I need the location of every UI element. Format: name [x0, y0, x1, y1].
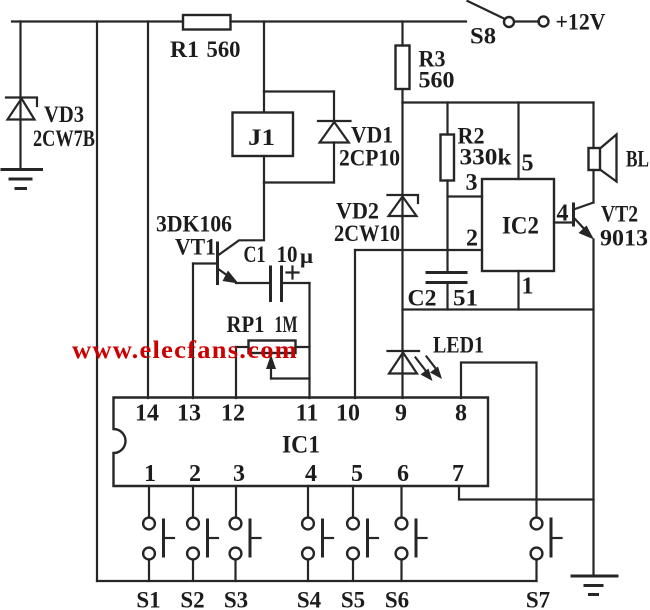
pin label 11 [296, 401, 319, 427]
pin label 4 [557, 201, 569, 227]
svg-text:10: 10 [336, 401, 360, 427]
capacitor C1 [236, 267, 310, 301]
wire J1/VD1 bottom bar [264, 181, 334, 183]
label S4 [297, 588, 322, 610]
svg-text:560: 560 [419, 68, 455, 93]
svg-text:560: 560 [207, 37, 241, 62]
wire pin4 [554, 221, 572, 223]
resistor R1 [183, 15, 231, 30]
svg-text:LED1: LED1 [433, 333, 484, 358]
svg-text:6: 6 [397, 461, 409, 487]
wire pin10 vertical [354, 250, 356, 398]
pin label 5 [522, 151, 534, 177]
label VT2 9013 [600, 202, 648, 251]
svg-text:www.elecfans.com: www.elecfans.com [72, 337, 298, 364]
svg-text:μ: μ [300, 244, 313, 268]
LED LED1 [388, 351, 443, 381]
svg-text:1M: 1M [275, 312, 298, 337]
label J1 [248, 125, 275, 150]
wire bottom rail [97, 580, 537, 582]
pin label 8 [455, 401, 467, 427]
svg-text:S4: S4 [297, 588, 322, 610]
pin label 5b [351, 461, 363, 487]
svg-text:IC2: IC2 [502, 213, 539, 240]
svg-text:12: 12 [221, 401, 245, 427]
svg-text:BL: BL [626, 147, 649, 172]
wire pin14 vertical [147, 22, 149, 399]
pin label 3b [233, 461, 245, 487]
watermark text [72, 337, 298, 364]
label R3 560 [419, 47, 455, 93]
wire left drop to VD3 [19, 22, 21, 170]
switch S1 [143, 486, 174, 581]
pin label 4b [305, 461, 317, 487]
potentiometer RP1 [236, 341, 310, 379]
switch S6 [396, 486, 427, 581]
label VD2 2CW10 [334, 199, 400, 247]
resistor R3 [396, 22, 410, 103]
wire top rail right [231, 20, 467, 22]
label 3DK106 VT1 [156, 212, 232, 260]
resistor R2 [441, 103, 455, 273]
svg-text:S5: S5 [341, 588, 365, 610]
svg-text:9: 9 [395, 401, 407, 427]
svg-text:13: 13 [177, 401, 201, 427]
svg-text:10: 10 [277, 242, 298, 267]
wire pin5 [517, 103, 519, 180]
label S6 [385, 588, 409, 610]
svg-text:330k: 330k [460, 145, 512, 170]
switch S3 [230, 486, 261, 581]
transistor VT2 [574, 203, 595, 577]
svg-text:S3: S3 [224, 588, 248, 610]
pin label 2 [466, 226, 478, 252]
IC IC1 [114, 398, 489, 487]
svg-text:S8: S8 [470, 24, 496, 49]
svg-text:C2: C2 [408, 286, 437, 311]
svg-text:51: 51 [453, 286, 478, 311]
svg-text:7: 7 [452, 461, 464, 487]
ground (left) [2, 170, 42, 189]
svg-text:C1: C1 [244, 242, 266, 267]
label C2 51 [408, 286, 479, 311]
label S3 [224, 588, 248, 610]
svg-text:VD1: VD1 [351, 123, 393, 148]
wire top rail left [12, 20, 183, 22]
pin label 14 [135, 401, 159, 427]
label IC1 [282, 432, 320, 459]
svg-text:3: 3 [466, 170, 478, 196]
wire pin11 vertical [308, 283, 310, 398]
switch S5 [347, 486, 378, 581]
label C1 10 u [244, 242, 314, 268]
wire pin1 [517, 271, 519, 310]
diode VD1 [318, 92, 351, 183]
pin label 6b [397, 461, 409, 487]
wire drop to J1 section [263, 22, 265, 92]
label VD1 2CP10 [339, 123, 400, 171]
wire pin7 route [459, 486, 594, 500]
pin label 12 [221, 401, 245, 427]
svg-text:VD2: VD2 [336, 199, 379, 224]
label R1 560 [170, 37, 241, 62]
svg-text:2: 2 [466, 226, 478, 252]
wire pin8 route [461, 363, 537, 517]
svg-text:9013: 9013 [600, 226, 648, 251]
svg-text:IC1: IC1 [282, 432, 320, 459]
wire pin12 vertical [235, 347, 237, 398]
pin label 1 [522, 274, 534, 300]
svg-text:2CW7B: 2CW7B [33, 126, 95, 151]
svg-text:2CP10: 2CP10 [339, 146, 400, 171]
wire VD2/LED column [401, 103, 403, 399]
svg-text:VT2: VT2 [601, 202, 638, 227]
diode VD3 (zener) [6, 98, 37, 120]
label R2 330k [458, 124, 512, 170]
svg-text:R1: R1 [170, 37, 199, 62]
diode VD2 (zener) [388, 195, 419, 216]
pin label 1b [144, 461, 156, 487]
svg-text:2CW10: 2CW10 [334, 221, 400, 246]
svg-text:RP1: RP1 [227, 312, 265, 337]
pin label 2b [189, 461, 201, 487]
svg-text:VD3: VD3 [44, 102, 84, 127]
relay J1 [233, 92, 294, 183]
switch S7 [531, 518, 562, 581]
svg-text:4: 4 [557, 201, 569, 227]
label S7 [526, 588, 550, 610]
svg-text:1: 1 [144, 461, 156, 487]
label S8 [470, 24, 496, 49]
pin label 7b [452, 461, 464, 487]
pin label 3 [466, 170, 478, 196]
svg-text:S1: S1 [136, 588, 160, 610]
svg-text:3DK106: 3DK106 [156, 212, 232, 237]
label IC2 [502, 213, 539, 240]
label +12V [556, 10, 606, 35]
svg-text:3: 3 [233, 461, 245, 487]
svg-text:S6: S6 [385, 588, 409, 610]
switch S8 [468, 1, 549, 27]
svg-text:VT1: VT1 [175, 235, 216, 260]
transistor VT1 [193, 183, 264, 284]
svg-text:5: 5 [522, 151, 534, 177]
label BL [626, 147, 649, 172]
svg-text:S7: S7 [526, 588, 550, 610]
label S1 [136, 588, 160, 610]
wire long left vertical [96, 22, 98, 582]
wire J1/VD1 top bar [264, 90, 334, 92]
wire pin2 [355, 249, 482, 251]
switch S2 [187, 486, 218, 581]
label S2 [180, 588, 204, 610]
svg-text:5: 5 [351, 461, 363, 487]
label VD3 2CW7B [33, 102, 95, 151]
wire pin13 vertical [192, 264, 194, 399]
wire supply node horizontal [403, 101, 594, 103]
svg-text:2: 2 [189, 461, 201, 487]
pin label 9 [395, 401, 407, 427]
svg-text:14: 14 [135, 401, 159, 427]
svg-text:4: 4 [305, 461, 317, 487]
svg-text:8: 8 [455, 401, 467, 427]
op-amp IC2 [482, 179, 554, 271]
svg-text:+12V: +12V [556, 10, 606, 35]
pin label 10 [336, 401, 360, 427]
switch S4 [302, 486, 333, 581]
wire pin3 [448, 195, 483, 197]
svg-text:S2: S2 [180, 588, 204, 610]
label RP1 1M [227, 312, 298, 337]
wire C2 bottom node horizontal [403, 308, 594, 310]
ground (right) [572, 576, 617, 595]
svg-text:1: 1 [522, 274, 534, 300]
svg-text:J1: J1 [248, 125, 275, 150]
capacitor C2 [427, 273, 466, 310]
pin label 13 [177, 401, 201, 427]
label S5 [341, 588, 365, 610]
svg-text:11: 11 [296, 401, 319, 427]
label LED1 [433, 333, 484, 358]
speaker BL [589, 103, 617, 203]
